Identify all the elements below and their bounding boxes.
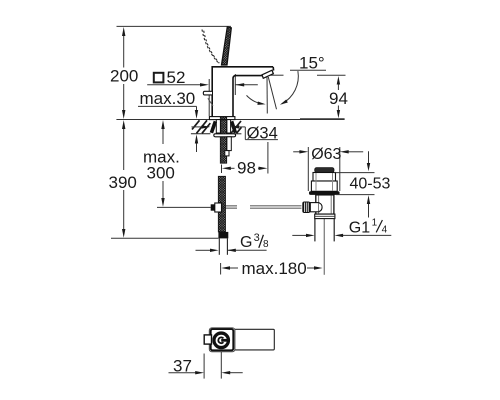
- svg-text:52: 52: [167, 68, 186, 87]
- svg-text:37: 37: [173, 356, 192, 375]
- svg-text:G1: G1: [349, 220, 370, 237]
- svg-text:Ø63: Ø63: [311, 146, 341, 163]
- svg-text:300: 300: [147, 164, 175, 183]
- svg-text:200: 200: [110, 67, 138, 86]
- svg-text:1: 1: [372, 217, 378, 228]
- svg-text:15°: 15°: [299, 53, 325, 72]
- svg-text:98: 98: [237, 159, 256, 178]
- svg-text:8: 8: [263, 239, 269, 250]
- svg-text:4: 4: [382, 224, 388, 235]
- svg-text:max.180: max.180: [242, 259, 307, 278]
- svg-text:94: 94: [329, 89, 348, 108]
- svg-text:40-53: 40-53: [350, 175, 391, 192]
- svg-text:max.30: max.30: [140, 89, 196, 108]
- svg-text:3: 3: [254, 232, 260, 244]
- svg-text:G: G: [240, 234, 252, 251]
- svg-text:390: 390: [109, 173, 137, 192]
- svg-text:Ø34: Ø34: [247, 125, 278, 143]
